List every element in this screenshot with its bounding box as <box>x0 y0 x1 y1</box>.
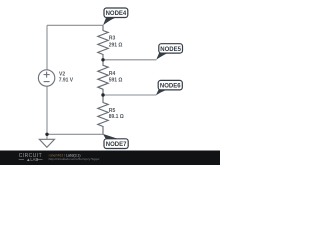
svg-text:http://circuitlab.com/c/6u7epc: http://circuitlab.com/c/6u7epcy7bgqw <box>49 157 100 161</box>
svg-text:R3: R3 <box>109 36 116 42</box>
svg-text:R4: R4 <box>109 71 116 77</box>
svg-text:291 Ω: 291 Ω <box>109 42 123 48</box>
svg-text:7.91 V: 7.91 V <box>59 78 74 84</box>
svg-text:591 Ω: 591 Ω <box>109 78 123 84</box>
svg-text:NODE4: NODE4 <box>106 11 127 17</box>
svg-text:NODE6: NODE6 <box>160 84 181 90</box>
svg-text:NODE7: NODE7 <box>106 142 127 148</box>
svg-text:89.1 Ω: 89.1 Ω <box>109 114 124 120</box>
svg-text:▲LAB: ▲LAB <box>26 157 38 162</box>
svg-text:NODE5: NODE5 <box>160 47 181 53</box>
